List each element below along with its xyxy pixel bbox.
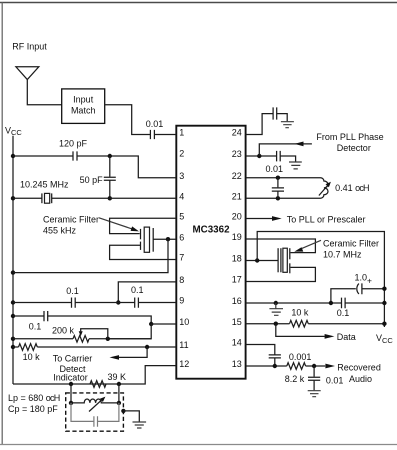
svg-text:18: 18 (232, 254, 242, 264)
node dot pin 10 junction (149, 322, 153, 326)
wire C 0.001 to pin13 line (274, 358, 276, 366)
wire antenna stem (27, 80, 61, 105)
wire leader line to 455 filter (99, 218, 132, 229)
svg-text:12: 12 (179, 359, 189, 369)
wire pin 23 stub (246, 155, 277, 157)
svg-text:10: 10 (179, 317, 189, 327)
svg-text:3: 3 (179, 171, 184, 181)
resistor R 10k left (19, 344, 38, 351)
node dot pin22 cap tap (276, 176, 280, 180)
svg-text:120 pF: 120 pF (59, 139, 88, 149)
capacitor 0.1 c (44, 311, 48, 321)
svg-text:5: 5 (179, 212, 184, 222)
node dot pin 11 junction (145, 345, 149, 349)
wire tank right drop (118, 384, 120, 403)
arrowhead Lp variable (100, 397, 106, 402)
wire pin 8 down to pin9 line (118, 282, 176, 303)
svg-text:10.7 MHz: 10.7 MHz (323, 249, 362, 259)
svg-text:4: 4 (179, 192, 184, 202)
svg-text:Match: Match (71, 106, 96, 116)
node dot rail-10k (11, 345, 15, 349)
wire 50pF vertical bottom (109, 180, 111, 198)
wire rail to R 10k (13, 346, 19, 348)
wire shield to ground (123, 411, 139, 422)
wire C 0.01 to ground (313, 381, 315, 391)
node dot coil left (69, 401, 73, 405)
wire VCC rail left (12, 136, 14, 384)
svg-text:MC3362: MC3362 (192, 224, 230, 235)
wire R 8.2k to arrow (306, 365, 326, 367)
wire rail to C 120pF (13, 155, 73, 157)
capacitor Cp (94, 416, 98, 426)
svg-text:16: 16 (232, 296, 242, 306)
wire pin 18 to filter input (246, 260, 278, 262)
wire pin 24 to bypass cap (246, 114, 273, 135)
arrowhead leader 455 (131, 226, 139, 231)
wire Cp branch right (98, 403, 119, 422)
node dot 39K right / tank right (117, 382, 121, 386)
wire pin 14 to C 0.001 (246, 345, 275, 355)
wire pin 22 to coil (246, 177, 321, 179)
capacitor 0.01 pin23 (277, 151, 281, 162)
node dot pin6 junction (166, 237, 170, 241)
ground pin23 (289, 162, 302, 169)
wire C 0.1 c to pin 10 riser (48, 316, 151, 324)
svg-text:13: 13 (232, 359, 242, 369)
svg-text:17: 17 (232, 275, 242, 285)
wire crystal to pin 4 (52, 197, 176, 199)
svg-text:21: 21 (232, 192, 242, 202)
node dot pin 18 (255, 258, 259, 262)
wire rail to crystal Y1 (13, 197, 42, 199)
svg-text:0.1: 0.1 (131, 285, 144, 295)
wire L 0.41 arrow (319, 185, 329, 196)
wire pin18 riser to VCC rail top (257, 232, 384, 328)
svg-text:23: 23 (232, 149, 242, 159)
svg-text:11: 11 (179, 340, 188, 350)
wire filter 455 lower lead to pin 7 (110, 245, 177, 259)
wire cap to ground pin23 (280, 156, 295, 162)
svg-text:2: 2 (179, 149, 184, 159)
arrowhead to PLL (272, 216, 282, 221)
ground recovered audio (308, 391, 321, 397)
node dot 39K left / tank left (69, 382, 73, 386)
wire input match to C 0.01 (105, 105, 151, 135)
wire pin11 junction to carrier-detect arrow (119, 347, 148, 357)
arrowhead to carrier detect (110, 355, 120, 360)
ceramic filter FL2 10.7 MHz (278, 248, 290, 273)
svg-text:RF Input: RF Input (12, 41, 47, 51)
node dot pin 13 (273, 364, 277, 368)
capacitor 0.001 (269, 355, 281, 358)
inductor L 0.41 variable (321, 178, 329, 199)
svg-text:455 kHz: 455 kHz (43, 225, 77, 235)
wire pin 17 to filter lower-right (246, 267, 316, 281)
svg-text:0.01: 0.01 (266, 164, 284, 174)
wire pin 10 junction to IC (151, 323, 176, 325)
wire 50pF vertical top (109, 156, 111, 177)
svg-text:0.41 ocH: 0.41 ocH (335, 183, 369, 193)
antenna (16, 67, 39, 80)
arrowhead L 0.41 (326, 182, 331, 188)
svg-text:10 k: 10 k (23, 352, 41, 362)
svg-text:Ceramic Filter: Ceramic Filter (43, 214, 99, 224)
wire pin 20 stub (246, 218, 273, 220)
svg-text:0.1: 0.1 (29, 321, 42, 331)
svg-text:7: 7 (179, 253, 184, 263)
wire from PLL phase detector (259, 144, 312, 156)
arrowhead from PLL (294, 142, 303, 147)
svg-text:Lp = 680 ocH: Lp = 680 ocH (8, 393, 60, 403)
svg-text:14: 14 (232, 338, 242, 348)
arrowhead leader 10.7 (294, 247, 303, 251)
capacitor 0.1 a (72, 298, 76, 308)
node dot rail pin15 (382, 322, 386, 326)
capacitor pin24 bypass (273, 107, 277, 119)
node dot 200k wiper tie (106, 337, 110, 341)
node dot pin21 cap tap (276, 196, 280, 200)
wire pin 5 to filter input (110, 218, 177, 233)
wire filter 455 output to pin 6 (153, 238, 176, 240)
svg-text:200 k: 200 k (52, 326, 75, 336)
svg-text:9: 9 (179, 296, 184, 306)
ground shield (133, 422, 147, 428)
node dot rail-200k (11, 337, 15, 341)
node dot rail-xtal (11, 196, 15, 200)
resistor R 39K (90, 381, 106, 388)
node dot pin 23 (257, 154, 261, 158)
svg-text:Ceramic Filter: Ceramic Filter (323, 238, 379, 248)
svg-text:10.245 MHz: 10.245 MHz (20, 180, 69, 190)
wire 200k wiper (81, 329, 108, 339)
node dot rail-pin9 (11, 300, 15, 304)
node dot recovered audio (312, 364, 316, 368)
wire pin 16 line (246, 302, 342, 304)
wire R 200k to wiper node (89, 338, 151, 340)
arrowhead Recovered Audio (325, 364, 335, 369)
wire cap stub top (277, 178, 279, 188)
svg-text:39 K: 39 K (108, 372, 127, 382)
wire C 0.01 to pin 1 (155, 134, 177, 136)
node dot xtal-50pF junction (108, 196, 112, 200)
node dot rail-pin6bias (11, 270, 15, 274)
node dot rail 1.0 (382, 287, 386, 291)
node dot coil right (117, 401, 121, 405)
resistor R 200k (73, 336, 89, 343)
wire pin 12 to 39K line (13, 366, 176, 384)
wire R 10k to pin 11 (37, 346, 176, 348)
block Input Match box (62, 89, 105, 124)
op-amp/IC U1 MC3362 body (176, 126, 245, 379)
wire C 0.1 to rail (345, 302, 384, 304)
wire frame-left (1, 3, 3, 445)
svg-text:From PLL Phase: From PLL Phase (316, 132, 383, 142)
node dot 120pF-50pF junction (108, 154, 112, 158)
svg-text:0.01: 0.01 (326, 376, 344, 386)
wire data branch (276, 324, 325, 337)
svg-text:0.1: 0.1 (66, 286, 79, 296)
wire 1.0 cap left branch (331, 289, 356, 303)
wire pin6 junction down to rail (13, 239, 168, 272)
svg-text:Indicator: Indicator (53, 373, 88, 383)
arrowhead Data (325, 334, 335, 339)
capacitor 0.01 (pin 1) (150, 130, 154, 139)
capacitor 50 pF (104, 177, 116, 180)
wire 0.01 branch down (313, 366, 315, 377)
resistor R 10k right (290, 320, 309, 327)
ground pin16 (269, 303, 283, 315)
node dot rail-0.1 (11, 314, 15, 318)
capacitor 120 pF (73, 151, 77, 160)
wire Lp variable arrow (89, 399, 103, 411)
svg-text:1: 1 (179, 128, 184, 138)
wire pin 19 to filter upper-right (246, 239, 316, 253)
wire cap to ground pin24 (277, 114, 287, 122)
svg-text:0.01: 0.01 (146, 119, 164, 129)
wire frame-top (0, 2, 397, 4)
wire C 120pF to pin 3 (77, 156, 176, 178)
wire rail to R 200k (13, 338, 73, 340)
capacitor pin22-21 (272, 188, 284, 191)
capacitor 1.0 electrolytic (357, 283, 362, 294)
svg-text:Input: Input (73, 95, 94, 105)
svg-text:22: 22 (232, 171, 242, 181)
svg-text:To Carrier: To Carrier (53, 354, 93, 364)
resistor R 8.2k (287, 363, 306, 370)
inductor Lp coil (71, 399, 119, 403)
wire pin10 junction down to 200k line (108, 324, 151, 339)
wire 1.0 cap to rail (362, 288, 384, 290)
wire rail to C 0.1 a (13, 302, 71, 304)
svg-text:Audio: Audio (349, 374, 372, 384)
svg-text:24: 24 (232, 128, 242, 138)
wire R 10k to rail (308, 323, 384, 325)
svg-text:Detector: Detector (337, 143, 371, 153)
svg-text:To PLL or Prescaler: To PLL or Prescaler (287, 215, 366, 225)
svg-text:6: 6 (179, 232, 184, 242)
wire Cp branch left (71, 403, 94, 422)
wire leader line to 10.7 filter (300, 240, 322, 249)
wire cap stub bottom (277, 192, 279, 199)
arrowhead 200k wiper (79, 331, 83, 336)
wire pin 13 stub (246, 365, 287, 367)
svg-text:0.1: 0.1 (337, 308, 350, 318)
svg-text:19: 19 (232, 232, 242, 242)
svg-text:50 pF: 50 pF (80, 175, 104, 185)
wire pin 21 to coil (246, 197, 321, 199)
capacitor 0.1 b (135, 298, 139, 308)
ceramic filter FL1 455 kHz (141, 227, 154, 252)
capacitor 0.1 pin16 (342, 298, 346, 309)
svg-text:Cp = 180 pF: Cp = 180 pF (8, 404, 58, 414)
svg-text:10 k: 10 k (291, 308, 309, 318)
svg-text:0.001: 0.001 (289, 352, 312, 362)
svg-text:8: 8 (179, 275, 184, 285)
wire junction to C 0.1 b (118, 302, 134, 304)
shield dashed box (66, 393, 124, 431)
svg-text:Data: Data (337, 332, 356, 342)
node dot pin 15 (274, 322, 278, 326)
wire C 0.1 b to pin 9 (139, 302, 177, 304)
svg-text:15: 15 (232, 317, 242, 327)
wire rail to C 0.1 c (13, 315, 44, 317)
node dot pin16 gnd tap (274, 301, 278, 305)
ground pin24 (281, 122, 294, 128)
node dot pin8-pin9 junction (116, 300, 120, 304)
wire tank left drop (70, 384, 72, 403)
wire C 0.1 a to junction (75, 302, 118, 304)
wire frame-bottom (0, 444, 397, 446)
wire pin 15 stub (246, 323, 290, 325)
capacitor 0.01 bottom (308, 377, 320, 380)
svg-text:20: 20 (232, 212, 242, 222)
svg-text:Recovered: Recovered (337, 363, 381, 373)
node dot pin16 1.0 tap (329, 301, 333, 305)
node dot rail pin16 (382, 301, 386, 305)
node dot rail-120pF (11, 154, 15, 158)
node dot shield ground tap (121, 409, 125, 413)
crystal Y1 10.245 MHz (42, 193, 52, 203)
svg-text:8.2 k: 8.2 k (285, 374, 305, 384)
